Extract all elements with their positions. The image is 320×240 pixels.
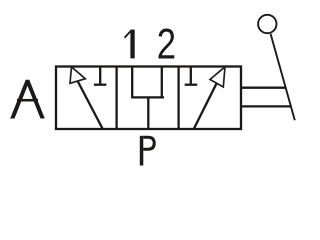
- svg-text:2: 2: [157, 21, 176, 68]
